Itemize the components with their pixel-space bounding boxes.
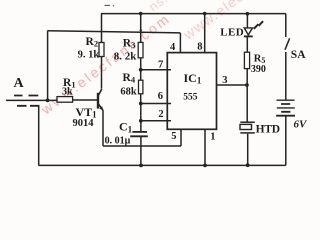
capacitor C1 bottom plate: [130, 135, 148, 137]
wire R2 top stem: [101, 14, 103, 43]
node pin6: [139, 102, 143, 106]
svg-text:9. 1k: 9. 1k: [78, 50, 100, 61]
wire A to R1: [6, 99, 57, 101]
LED triangle: [244, 28, 252, 35]
wire top +V rail: [101, 13, 286, 15]
svg-text:R3: R3: [123, 37, 136, 50]
node pin8 top: [203, 12, 207, 16]
wire R3 bottom stem: [140, 58, 142, 70]
battery GB plates: [276, 100, 295, 116]
LED cathode bar: [244, 35, 253, 37]
node pin3: [245, 83, 249, 87]
wire pin1 drop: [204, 129, 206, 165]
wire switch top lead: [285, 14, 287, 37]
node HTD ground: [246, 163, 250, 167]
buzzer HTD top plate: [240, 121, 255, 123]
wire pin8 drop: [204, 14, 206, 53]
resistor R5 body: [244, 52, 249, 68]
wire R4 top stem: [140, 70, 142, 80]
input jack A lower shield dashes: [17, 105, 39, 107]
wire node6 to node2: [140, 104, 142, 121]
node C1 ground: [139, 164, 143, 168]
wire pin5 riser: [180, 129, 182, 146]
watermark partial top right: [180, 0, 303, 43]
svg-text:390: 390: [251, 64, 266, 75]
wire pin6: [141, 103, 171, 105]
node pin1 ground: [203, 164, 207, 168]
wire pin2: [141, 120, 171, 122]
wire rail2 (pin4 line): [48, 31, 181, 33]
node pin7: [139, 68, 143, 72]
svg-text:6: 6: [158, 91, 163, 102]
wire switch bottom lead to battery: [285, 52, 287, 100]
resistor R2 body: [99, 43, 104, 57]
wire R5 to HTD: [246, 69, 248, 122]
svg-text:0. 01μ: 0. 01μ: [105, 136, 131, 147]
svg-text:A: A: [14, 76, 25, 91]
wire R4 bottom stem: [140, 94, 142, 104]
switch SA blade: [285, 38, 290, 50]
input jack A upper shield dashes: [14, 95, 38, 97]
transistor Q1 emitter diagonal: [98, 104, 103, 111]
wire HTD bottom stem: [247, 134, 249, 166]
buzzer HTD bottom plate: [240, 132, 255, 134]
resistor R3 body: [138, 42, 143, 57]
wire left box vertical: [47, 31, 49, 101]
wire pin5 horizontal: [103, 145, 181, 147]
wire C1 bottom stem to ground: [140, 137, 142, 165]
svg-text:R2: R2: [86, 36, 99, 49]
wire C1 top stem: [140, 121, 142, 131]
svg-text:1: 1: [210, 131, 215, 142]
node R3 top: [139, 12, 143, 16]
IC U1 555 box: [167, 53, 216, 130]
wire R2 bottom stem / collector riser: [101, 57, 103, 89]
watermark partial top center: [146, 0, 194, 14]
watermark www.elecfans.com main: [37, 10, 173, 118]
wire pin3: [217, 84, 248, 86]
resistor R4 body: [139, 80, 143, 94]
svg-text:LED: LED: [220, 27, 244, 39]
svg-text:5: 5: [171, 131, 176, 142]
wire R3 top stem: [140, 14, 142, 43]
wire emitter vertical: [102, 110, 104, 146]
svg-text:4: 4: [170, 42, 176, 53]
svg-text:555: 555: [183, 93, 198, 103]
svg-text:6V: 6V: [294, 119, 309, 131]
node A input: [46, 99, 50, 103]
transistor Q1 emitter arrowhead: [99, 106, 103, 111]
wire bottom ground rail: [39, 164, 286, 166]
transistor Q1 base bar: [97, 93, 99, 109]
svg-text:2: 2: [158, 109, 163, 120]
svg-text:9014: 9014: [73, 118, 95, 129]
node rail2 cross blob: [140, 29, 142, 31]
wire pin4 drop: [179, 33, 181, 53]
node pin2: [139, 119, 143, 123]
wire battery bottom lead: [285, 116, 287, 165]
wire pin7: [141, 69, 171, 71]
transistor Q1 collector diagonal: [98, 89, 101, 96]
wire R1 to base: [73, 99, 98, 101]
svg-text:3k: 3k: [62, 87, 73, 98]
svg-text:8. 2k: 8. 2k: [114, 51, 138, 63]
wire LED to R5: [246, 37, 248, 52]
buzzer HTD element box: [240, 124, 252, 129]
LED light arrows: [254, 21, 263, 29]
svg-text:68k: 68k: [120, 86, 136, 97]
svg-text:8: 8: [197, 41, 202, 52]
capacitor C1 top plate: [132, 131, 147, 133]
svg-text:SA: SA: [291, 49, 306, 61]
node LED top: [246, 12, 250, 16]
wire left shield vertical: [38, 106, 40, 166]
wire LED top stem: [246, 14, 248, 28]
resistor R1 body: [57, 97, 73, 103]
svg-text:3: 3: [222, 75, 227, 86]
svg-text:7: 7: [158, 59, 163, 70]
svg-text:HTD: HTD: [256, 124, 280, 136]
dust speck above top rail: [105, 4, 111, 6]
svg-text:R4: R4: [123, 72, 136, 85]
